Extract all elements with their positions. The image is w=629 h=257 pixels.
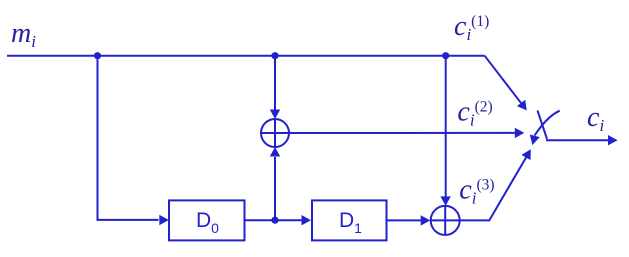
wire: vertical drop from top line into XOR1 <box>274 56 276 110</box>
switch pole line <box>538 111 548 140</box>
wire: diagonal from top line to switch (c1 branch) <box>485 56 524 106</box>
arrow on output line <box>608 135 618 145</box>
switch rotation arc <box>535 111 560 136</box>
delay block D1 <box>312 200 387 240</box>
arrow into XOR2 left <box>421 215 431 225</box>
wire: junction to D1 <box>278 219 302 221</box>
wire: vertical drop at x=97.5 to bottom row <box>98 56 159 220</box>
arrow into XOR1 bottom <box>270 147 280 157</box>
wire: vertical from bottom junction up into XOR1 <box>274 157 276 220</box>
svg-text:mi: mi <box>11 18 36 51</box>
node: junction dot on top line at x=275 <box>271 52 278 59</box>
wire: D1 output to XOR2 <box>387 219 422 221</box>
arrow into D0 <box>159 215 169 225</box>
arrow diagonal c1 into switch <box>517 100 527 111</box>
svg-text:ci(2): ci(2) <box>457 97 492 130</box>
wire: vertical drop from top line into XOR2 <box>445 56 447 197</box>
arrow diagonal c3 into switch <box>522 149 531 160</box>
wire: XOR2 output diagonal to switch (c3 branch) <box>460 157 527 221</box>
wire: top input line m_i <box>7 55 485 57</box>
node: junction dot on bottom line at x=275 <box>271 217 278 224</box>
wire: D0 output to junction <box>245 219 276 221</box>
node: junction dot on top line at x=445.7 <box>442 52 449 59</box>
XOR adder 2 (modulo-2 adder) <box>431 206 460 235</box>
svg-text:ci(3): ci(3) <box>459 174 494 207</box>
wire: output line to ci <box>546 139 608 141</box>
arrow into XOR1 top <box>270 110 280 120</box>
XOR adder 1 (modulo-2 adder) <box>261 119 289 147</box>
arrow into XOR2 top <box>440 196 450 206</box>
node: junction dot on top line at x=97.5 <box>94 52 101 59</box>
svg-text:ci: ci <box>587 102 604 135</box>
arrow into D1 <box>302 215 312 225</box>
arrow on switch arc <box>530 135 540 146</box>
svg-text:ci(1): ci(1) <box>454 11 489 44</box>
delay block D0 <box>169 200 245 240</box>
arrow horizontal c2 into switch <box>515 128 525 138</box>
wire: XOR1 output to switch (c2 branch) <box>289 132 515 134</box>
